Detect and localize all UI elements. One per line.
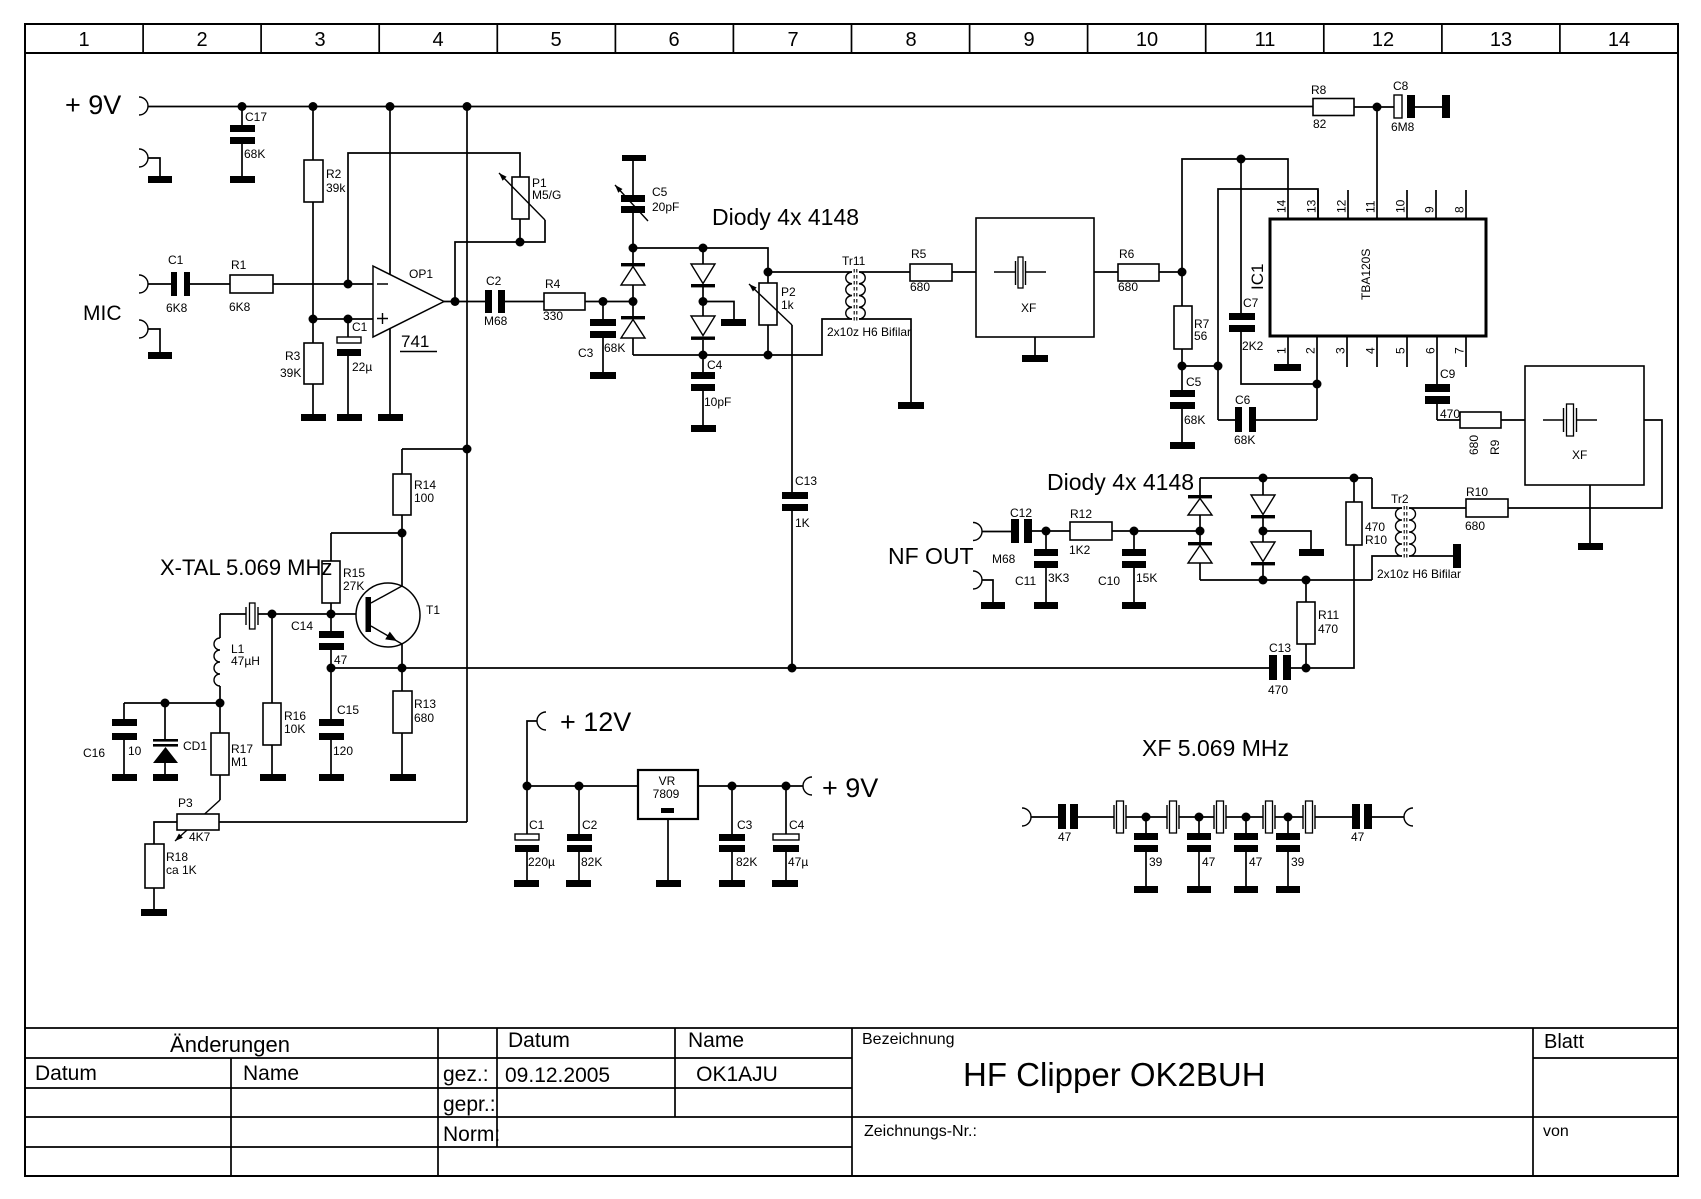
wire Q1 to Q2: [1126, 816, 1167, 818]
svg-text:NF OUT: NF OUT: [888, 543, 974, 569]
ground bridge2 mid: [1299, 549, 1324, 556]
wire R17 wiper arrow to P3: [175, 800, 220, 841]
svg-text:20pF: 20pF: [652, 200, 679, 214]
node junction R6 / R7 / pin14 wire: [1178, 268, 1187, 277]
node junction +9V rail / vertical drop: [463, 102, 472, 111]
node junction bridge2 bottom rail mid: [1259, 576, 1268, 585]
node junction pin14 wire / C7: [1237, 155, 1246, 164]
node junction P2 top / Tr11 primary: [764, 268, 773, 277]
node junction R11 / C13 470 / carrier: [1302, 664, 1311, 673]
wire P1 wiper to output feedback: [455, 220, 545, 302]
capacitor C12: [992, 506, 1032, 566]
svg-text:4K7: 4K7: [189, 830, 211, 844]
resistor R17: [211, 703, 253, 800]
capacitor C17: [230, 107, 267, 177]
svg-text:R8: R8: [1311, 83, 1327, 97]
node MIC input connector: [139, 275, 148, 293]
svg-text:Name: Name: [688, 1029, 744, 1052]
wire L1 node horizontal: [124, 702, 220, 704]
svg-text:82K: 82K: [581, 855, 602, 869]
svg-text:+ 12V: + 12V: [560, 707, 631, 737]
varactor diode CD1: [153, 703, 207, 774]
svg-text:470: 470: [1318, 622, 1338, 636]
ruler bottom line: [25, 52, 1678, 54]
svg-text:10pF: 10pF: [704, 395, 731, 409]
node junction R12 / C10: [1130, 527, 1139, 536]
resistor R6: [1118, 247, 1159, 294]
svg-text:C17: C17: [245, 110, 267, 124]
ground C1 220u: [514, 880, 539, 887]
svg-text:68K: 68K: [244, 147, 265, 161]
node junction C7 / pin2: [1313, 380, 1322, 389]
svg-text:6K8: 6K8: [229, 300, 251, 314]
svg-text:2: 2: [196, 29, 207, 51]
svg-text:470: 470: [1268, 683, 1288, 697]
capacitor C1 220u electrolytic: [515, 786, 555, 880]
ground CD1: [153, 774, 178, 781]
wire connector to ground: [148, 329, 160, 352]
svg-text:Änderungen: Änderungen: [170, 1032, 290, 1057]
svg-text:10: 10: [1136, 29, 1158, 51]
wire bridge1 bottom rail: [633, 319, 852, 355]
node junction bridge1 bottom rail mid: [699, 351, 708, 360]
svg-text:C16: C16: [83, 746, 105, 760]
svg-text:7: 7: [1453, 347, 1467, 354]
svg-text:C2: C2: [582, 818, 598, 832]
pin numbers top row: [1275, 199, 1467, 213]
svg-text:09.12.2005: 09.12.2005: [505, 1064, 610, 1087]
ground C3: [590, 372, 616, 379]
svg-text:56: 56: [1194, 329, 1208, 343]
ruler column dividers: [143, 24, 1560, 53]
wire R9 to XF2: [1501, 419, 1525, 421]
node junction crystal / R16 / base wire: [268, 610, 277, 619]
ground connector top-left: [139, 149, 148, 167]
svg-text:10: 10: [1394, 199, 1408, 213]
ground XF2: [1578, 543, 1603, 550]
svg-text:4: 4: [1364, 347, 1378, 354]
ground C4: [691, 425, 716, 432]
wire R1 to op-amp inverting input: [273, 283, 373, 285]
ground pin1: [1274, 364, 1301, 371]
capacitor 39 shunt 4: [1276, 817, 1305, 886]
svg-text:3K3: 3K3: [1048, 571, 1070, 585]
node ladder input connector: [1022, 808, 1031, 826]
IC1 top pin stubs: [1318, 190, 1466, 219]
svg-text:+ 9V: + 9V: [65, 90, 121, 120]
svg-text:R6: R6: [1119, 247, 1135, 261]
ground shunt 1: [1134, 886, 1158, 893]
wire C12 to R12: [1032, 530, 1070, 532]
svg-text:2K2: 2K2: [1242, 339, 1264, 353]
svg-text:R14: R14: [414, 478, 436, 492]
ground XF1: [1022, 355, 1048, 362]
svg-text:470: 470: [1440, 407, 1460, 421]
wire feedback from inverting input up and to P1: [348, 153, 520, 284]
node junction base / C14 / R15: [327, 610, 336, 619]
svg-text:3: 3: [1334, 347, 1348, 354]
capacitor C10: [1098, 531, 1157, 602]
wire R14 top to +9V drop: [402, 448, 467, 450]
svg-text:680: 680: [1467, 435, 1481, 455]
ground connector below NF OUT: [973, 571, 982, 589]
svg-text:2: 2: [1304, 347, 1318, 354]
capacitor C7: [1229, 159, 1317, 384]
svg-text:5: 5: [550, 29, 561, 51]
wire to crystal Q1: [1078, 816, 1114, 818]
svg-text:C4: C4: [789, 818, 805, 832]
ground C4 47u: [772, 880, 798, 887]
diode D7: [1251, 478, 1275, 531]
svg-text:6M8: 6M8: [1391, 120, 1415, 134]
svg-text:Datum: Datum: [508, 1029, 570, 1052]
svg-text:5: 5: [1394, 347, 1408, 354]
node junction ladder node 2: [1195, 813, 1204, 822]
wire ladder output: [1372, 816, 1404, 818]
svg-text:R13: R13: [414, 697, 436, 711]
wire Q4 to Q5: [1275, 816, 1303, 818]
wire ladder input: [1031, 816, 1058, 818]
capacitor 39 shunt 1: [1134, 817, 1163, 886]
wire Tr2 primary top to bridge2: [1372, 478, 1402, 508]
wire crystal to base node: [272, 613, 366, 615]
node junction +12V / C1 220u: [523, 782, 532, 791]
ground VR: [656, 880, 681, 887]
node junction +9V rail / R2: [309, 102, 318, 111]
regulator VR 7809: [638, 770, 698, 880]
svg-text:47: 47: [1249, 855, 1263, 869]
ground C5 68K: [1170, 442, 1195, 449]
svg-text:220µ: 220µ: [528, 855, 555, 869]
transformer Tr2: [1377, 492, 1461, 581]
resistor R5: [910, 247, 952, 294]
wire XF2 to ground: [1589, 485, 1591, 543]
node junction bridge1 top rail / C5: [629, 244, 638, 253]
wire XF2 right side down to R10: [1508, 420, 1662, 508]
crystal Q3: [1214, 801, 1226, 833]
svg-text:680: 680: [1118, 280, 1138, 294]
crystal Q5: [1303, 801, 1315, 833]
ground R16: [260, 774, 286, 781]
transformer Tr11: [827, 254, 911, 339]
svg-text:12: 12: [1372, 29, 1394, 51]
svg-text:4: 4: [432, 29, 443, 51]
svg-text:T1: T1: [426, 603, 440, 617]
wire bridge2 mid node to ground: [1263, 531, 1311, 549]
wire connector to ground: [982, 580, 993, 602]
node junction ladder node 4: [1284, 813, 1293, 822]
svg-text:R16: R16: [284, 709, 306, 723]
node junction R14 / R15 / collector: [398, 529, 407, 538]
wire Tr2 secondary bottom to terminal: [1409, 555, 1453, 557]
svg-text:R3: R3: [285, 349, 301, 363]
ground: [981, 602, 1005, 609]
capacitor C3: [578, 302, 625, 373]
svg-text:330: 330: [543, 309, 563, 323]
op-amp U1 OP1 741: [373, 107, 444, 415]
svg-text:470: 470: [1365, 520, 1385, 534]
svg-text:39K: 39K: [280, 366, 301, 380]
IC U IC1 TBA120S: [1248, 219, 1486, 336]
svg-text:R9: R9: [1488, 439, 1502, 455]
node junction bridge2 top rail / 470 R10: [1350, 474, 1359, 483]
resistor R11: [1297, 580, 1339, 668]
capacitor C2: [484, 274, 508, 328]
wire op-amp output: [444, 301, 485, 303]
svg-text:C3: C3: [737, 818, 753, 832]
node junction bridge1 left mid: [629, 297, 638, 306]
svg-text:9: 9: [1423, 206, 1437, 213]
node junction C14 / C15 / carrier: [327, 664, 336, 673]
capacitor C8 6M8 electrolytic: [1391, 79, 1415, 134]
svg-text:13: 13: [1490, 29, 1512, 51]
node junction C4 47u / +9V out: [782, 782, 791, 791]
wire Tr11 secondary top to R5: [859, 271, 910, 273]
ruler numbers: [78, 29, 1630, 51]
capacitor C6: [1218, 393, 1317, 447]
ground R13: [390, 774, 416, 781]
capacitor C16: [83, 703, 142, 774]
svg-text:MIC: MIC: [83, 302, 122, 325]
node junction P1 bottom / wiper / feedback: [516, 238, 525, 247]
resistor R13: [393, 668, 436, 774]
capacitor C2 82K: [567, 786, 602, 880]
ground R3: [301, 414, 326, 421]
transistor Q T1: [356, 533, 440, 668]
wire Q3 to Q4: [1226, 816, 1263, 818]
svg-text:47µ: 47µ: [788, 855, 808, 869]
wire R6 to junction: [1159, 271, 1182, 273]
svg-text:1K2: 1K2: [1069, 543, 1091, 557]
svg-text:680: 680: [910, 280, 930, 294]
svg-text:13: 13: [1305, 199, 1319, 213]
svg-text:68K: 68K: [1184, 413, 1205, 427]
svg-text:von: von: [1543, 1123, 1569, 1140]
wire R12 to bridge2: [1112, 530, 1200, 532]
wire pin13 net: [1218, 189, 1318, 420]
resistor R3: [280, 319, 323, 414]
svg-text:680: 680: [1465, 519, 1485, 533]
node junction +9V rail / C17: [238, 102, 247, 111]
svg-text:C2: C2: [486, 274, 502, 288]
svg-text:Norm:: Norm:: [443, 1123, 500, 1146]
node junction L1 / R17 / C16 wire: [216, 699, 225, 708]
node junction ladder node 1: [1142, 813, 1151, 822]
svg-text:741: 741: [401, 332, 429, 351]
resistor R14: [393, 449, 436, 533]
crystal Q4: [1263, 801, 1275, 833]
svg-text:C8: C8: [1393, 79, 1409, 93]
node NF OUT connector: [973, 523, 982, 541]
svg-text:15K: 15K: [1136, 571, 1157, 585]
wire non-inverting input line: [313, 318, 373, 320]
svg-text:C4: C4: [707, 358, 723, 372]
title block texts: [35, 1029, 1584, 1146]
node junction carrier / C13 1K: [788, 664, 797, 673]
svg-text:82K: 82K: [736, 855, 757, 869]
ground C16: [112, 774, 137, 781]
ground shunt 4: [1276, 886, 1300, 893]
wire bridge2 bottom rail: [1200, 579, 1372, 581]
wire +9V vertical drop: [466, 107, 468, 823]
svg-text:22µ: 22µ: [352, 360, 372, 374]
svg-text:8: 8: [1453, 206, 1467, 213]
diode D2: [621, 302, 645, 356]
node junction C12 / C11: [1042, 527, 1051, 536]
capacitor C5 68K at R7: [1170, 375, 1205, 442]
node junction emitter / R13 / carrier: [398, 664, 407, 673]
svg-text:gepr.:: gepr.:: [443, 1093, 496, 1116]
ground C1 22u: [337, 414, 362, 421]
node junction bridge2 top rail mid: [1259, 474, 1268, 483]
resistor 470 R10 vertical: [1346, 478, 1387, 547]
svg-text:TBA120S: TBA120S: [1359, 249, 1373, 300]
node junction C3 82K: [728, 782, 737, 791]
node junction R4 / C3: [599, 297, 608, 306]
svg-text:6K8: 6K8: [166, 301, 188, 315]
wire C13 to resistor 470 R10: [1291, 545, 1354, 668]
node +9V supply connector: [139, 97, 148, 115]
capacitor C15: [319, 668, 359, 774]
capacitor C13 1K: [782, 474, 817, 668]
wire junction up to IC1 pin 14: [1182, 159, 1288, 272]
capacitor C3 82K: [719, 786, 757, 880]
svg-text:C13: C13: [795, 474, 817, 488]
pin numbers bottom row: [1275, 347, 1467, 354]
svg-text:Diody 4x 4148: Diody 4x 4148: [1047, 469, 1194, 495]
svg-text:7: 7: [787, 29, 798, 51]
resistor R8: [1311, 83, 1354, 131]
wire regulator input rail: [527, 785, 638, 787]
trimmer capacitor C5 20pF: [615, 161, 679, 248]
inductor L1: [214, 614, 260, 703]
svg-text:C12: C12: [1010, 506, 1032, 520]
wire C1 to R1: [190, 283, 230, 285]
capacitor C1 22u electrolytic: [337, 319, 372, 414]
svg-text:Blatt: Blatt: [1544, 1031, 1584, 1053]
svg-text:M68: M68: [484, 314, 508, 328]
svg-text:C15: C15: [337, 703, 359, 717]
capacitor 47 ladder output: [1351, 804, 1372, 844]
capacitor C11: [1015, 531, 1070, 602]
crystal filter XF block 1: [976, 218, 1094, 337]
node junction bridge1 top rail mid: [699, 244, 708, 253]
ground shunt 2: [1187, 886, 1211, 893]
svg-text:OK1AJU: OK1AJU: [696, 1063, 778, 1086]
resistor R12: [1069, 507, 1112, 557]
wire carrier line emitter to C13: [331, 667, 1269, 669]
svg-text:39k: 39k: [326, 181, 346, 195]
wire junction down to pin 11: [1376, 107, 1378, 219]
node junction non-inverting input / C1 22u: [344, 315, 353, 324]
svg-text:2x10z H6 Bifilar: 2x10z H6 Bifilar: [827, 325, 911, 339]
capacitor C4: [691, 355, 731, 425]
svg-text:C11: C11: [1015, 574, 1036, 588]
wire bridge1 mid node to ground: [703, 302, 734, 320]
wire Tr2 primary bottom: [1372, 556, 1402, 580]
svg-text:47: 47: [1058, 830, 1072, 844]
svg-text:C5: C5: [652, 185, 668, 199]
svg-text:HF Clipper OK2BUH: HF Clipper OK2BUH: [963, 1056, 1266, 1093]
wire C2 to R4: [505, 301, 544, 303]
diode D8: [1251, 531, 1275, 580]
svg-text:C10: C10: [1098, 574, 1120, 588]
wire Q2 to Q3: [1179, 816, 1214, 818]
svg-text:XF 5.069 MHz: XF 5.069 MHz: [1142, 735, 1289, 761]
node junction +9V rail / op-amp supply: [386, 102, 395, 111]
crystal Q2: [1167, 801, 1179, 833]
node junction op-amp output / feedback: [451, 297, 460, 306]
ground: [148, 352, 172, 359]
capacitor C14: [291, 614, 348, 668]
svg-text:XF: XF: [1572, 448, 1587, 462]
diode D1: [621, 248, 645, 302]
svg-text:R10: R10: [1365, 533, 1387, 547]
ground C15: [319, 774, 344, 781]
svg-text:6: 6: [1424, 347, 1438, 354]
resistor R4: [543, 277, 585, 323]
capacitor 47 shunt 3: [1234, 817, 1263, 886]
node junction inverting input / feedback: [344, 280, 353, 289]
node junction R2 / R3 / non-inverting input: [309, 315, 318, 324]
capacitor C4 47u electrolytic: [773, 786, 808, 880]
svg-text:R17: R17: [231, 742, 253, 756]
svg-text:C3: C3: [578, 346, 594, 360]
wire mic to C1: [148, 283, 171, 285]
svg-text:10K: 10K: [284, 722, 305, 736]
wire +9V rail: [148, 106, 1313, 108]
resistor R2: [304, 107, 346, 320]
svg-text:68K: 68K: [604, 341, 625, 355]
svg-text:14: 14: [1275, 199, 1289, 213]
svg-text:M5/G: M5/G: [532, 188, 561, 202]
IC1 bottom pin stubs: [1347, 336, 1466, 367]
wire Tr11 secondary bottom to ground: [859, 319, 911, 402]
svg-text:680: 680: [414, 711, 434, 725]
svg-text:12: 12: [1335, 199, 1349, 213]
node junction +9V drop / R14: [463, 445, 472, 454]
node junction bridge1 mid column: [699, 297, 708, 306]
wire XF1 to ground: [1034, 337, 1036, 355]
node junction C2 82K: [575, 782, 584, 791]
potentiometer P1: [499, 173, 561, 242]
wire pin2: [1316, 336, 1318, 420]
svg-text:82: 82: [1313, 117, 1327, 131]
crystal filter XF block 2: [1525, 366, 1644, 485]
svg-text:R11: R11: [1318, 608, 1339, 622]
svg-text:M68: M68: [992, 552, 1016, 566]
svg-text:47µH: 47µH: [231, 654, 260, 668]
svg-text:68K: 68K: [1234, 433, 1255, 447]
ground C17: [230, 176, 255, 183]
svg-text:1: 1: [78, 29, 89, 51]
svg-text:39: 39: [1149, 855, 1163, 869]
diode D6: [1188, 531, 1212, 580]
title block grid lines: [25, 1028, 1678, 1176]
svg-text:R15: R15: [343, 566, 365, 580]
wire R15 top to collector node: [331, 532, 402, 534]
capacitor 47 shunt 2: [1187, 817, 1216, 886]
ground C2 82K: [566, 880, 591, 887]
ground bridge1 mid: [721, 319, 746, 326]
crystal X1: [220, 603, 272, 629]
node junction ladder node 3: [1242, 813, 1251, 822]
resistor R16: [263, 614, 306, 774]
crystal Q1: [1114, 801, 1126, 833]
node junction R7 / C6 branch: [1214, 362, 1223, 371]
ground above C5: [622, 155, 646, 161]
wire +12V to rail: [527, 721, 537, 786]
